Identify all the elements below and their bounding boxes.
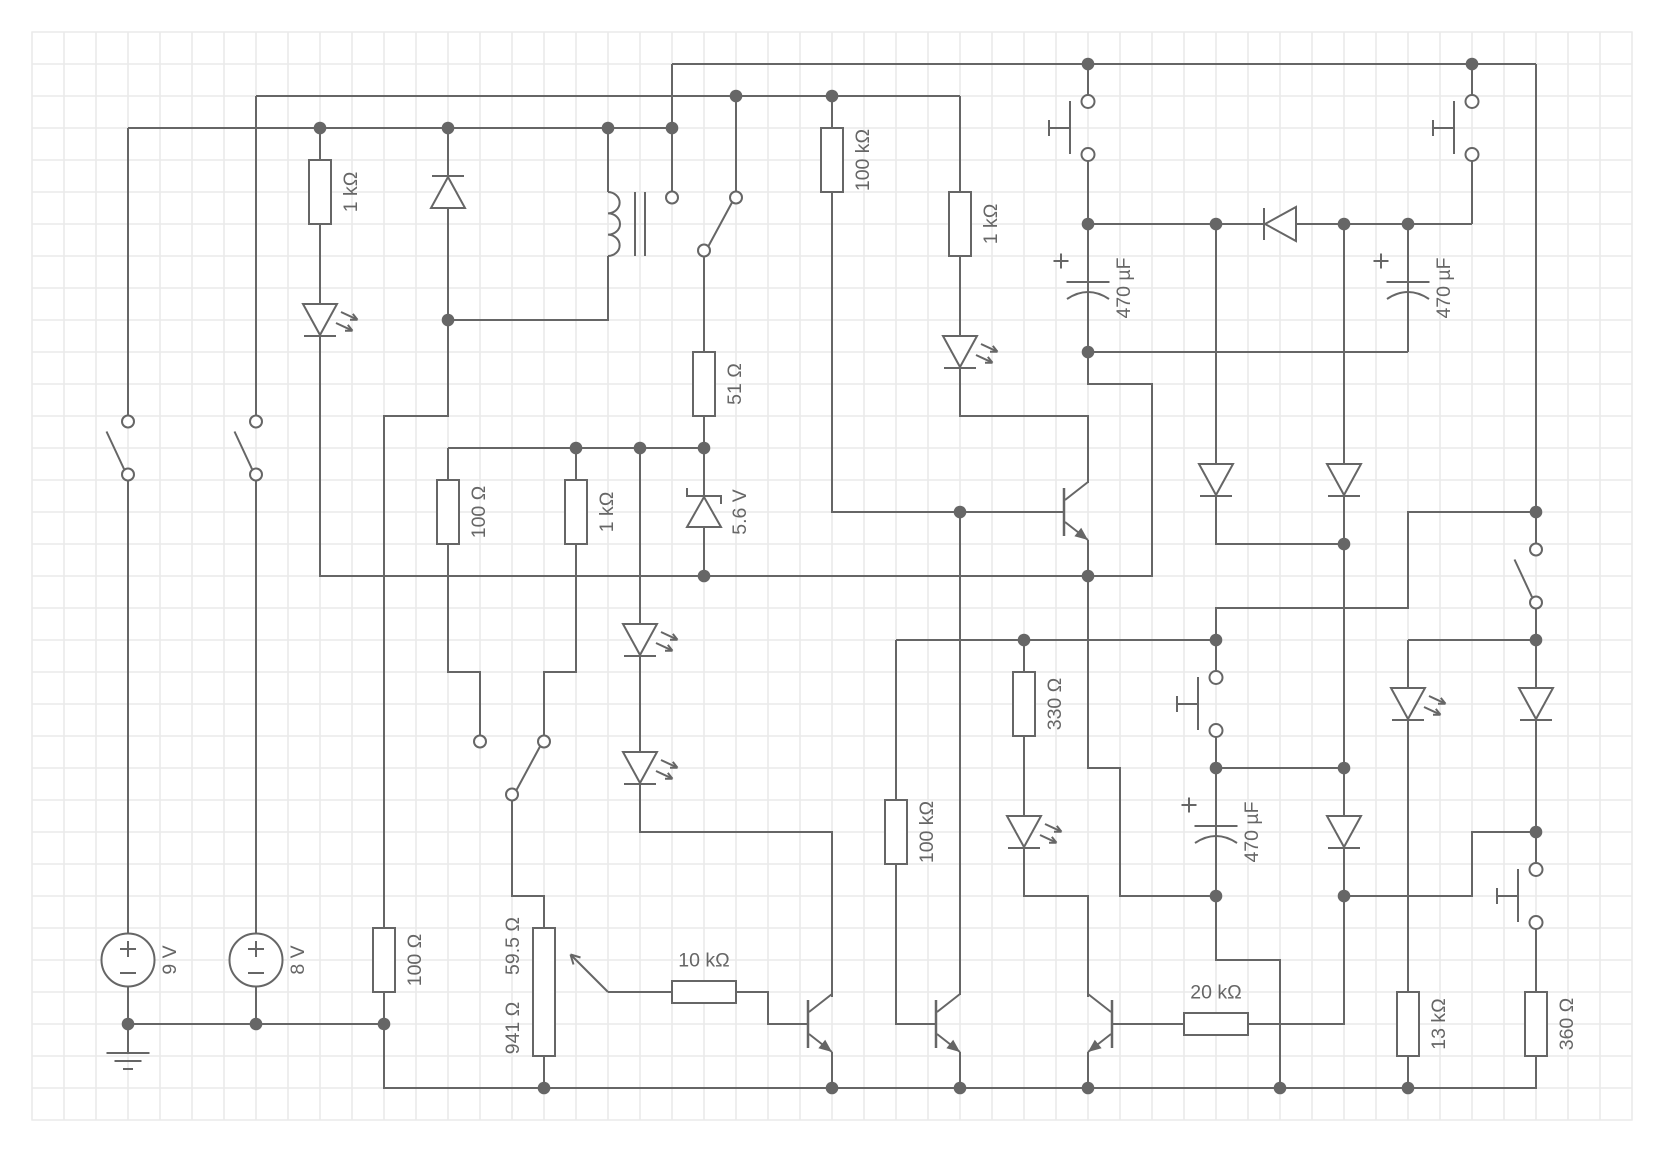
junction dots [314,122,327,135]
wire switch common to potentiometer [512,801,544,928]
wire 330/LED5 branch to Q3 collector [1024,640,1088,997]
wire rail y=96 from 256,96 to 960,96 [256,95,960,97]
wire LED6/13k branch x=1408 [1407,640,1409,1088]
wire x=128 switch to 9V source and ground rail [127,481,129,1024]
wire 1k/LED branch x=960 to Q4 collector [960,96,1088,483]
wire diode D2 branch x=1216 [1216,224,1344,544]
wire PB3 top lead [1215,640,1217,671]
wire Q3 base to 20k [1113,1023,1184,1025]
capacitor C3 470uF [1195,825,1238,827]
wire rail y=640 left segment [896,639,1216,641]
wire coil bottom to 448,320 [448,256,608,320]
svg-text:13 kΩ: 13 kΩ [1428,998,1450,1049]
wire x=256 switch to 8V source [255,481,257,1024]
LED LED5 [1007,816,1041,847]
LED LED6 [1391,688,1425,719]
wire 20k to node 1344,896 [1248,896,1344,1024]
wire loop 1088,352 to 1088,576 via 1152 [1088,352,1152,576]
wire node 1216,896 to bottom rail [1216,896,1280,1088]
resistor R12 [1397,992,1419,1056]
pushbutton PB3 [1210,671,1223,684]
wire 1k branch x=576 to switch right contact [544,448,576,735]
resistor R13 [1525,992,1547,1056]
LED LED2 [623,624,657,655]
svg-text:470 µF: 470 µF [1433,257,1455,318]
diode D5 [1519,688,1553,719]
wire x=256 down to switch [255,96,257,415]
wire relay left contact lead [671,128,673,191]
diode D4 [1327,816,1361,847]
svg-text:51 Ω: 51 Ω [724,363,746,405]
wire capacitor C3 through [1215,768,1217,896]
capacitor C1 470uF [1067,281,1110,283]
wire R1 branch x=320 with LED to rail y=576 [320,128,1088,576]
wire Q2 emitter [959,1052,961,1088]
svg-text:8 V: 8 V [287,945,309,974]
capacitor C2 470uF [1387,281,1430,283]
diode D6 [1265,207,1296,241]
svg-text:5.6 V: 5.6 V [729,489,751,535]
LED LED1 [303,304,337,335]
wire diode D3/D4 branch x=1344 [1343,224,1345,896]
wire SW4 bottom lead [1535,609,1537,641]
svg-text:1 kΩ: 1 kΩ [980,204,1002,245]
transistor Q4 [1063,488,1066,536]
wire coil top lead [607,128,609,192]
resistor R8 [672,981,736,1003]
resistor R2 [821,128,843,192]
zener diode Z1 5.6V [687,497,721,527]
wire Q4 emitter [1087,540,1089,576]
wire pushbutton PB2 top lead [1471,64,1473,95]
wire Q4 base [960,511,1063,513]
diode D2 [1199,464,1233,495]
wire rail y=128 from 128,128 to 672,128 [128,127,672,129]
wire zener branch 704,448 to 704,576 [703,448,705,576]
diode D3 [1327,464,1361,495]
wire rail y=352 [1088,351,1408,353]
wire left branch x=128 down to switch [127,128,129,415]
wire diode D5 branch x=1536 [1535,640,1537,832]
wire capacitor C2 through [1407,224,1409,352]
switch SW-relay [666,192,678,204]
wire 100ohm branch x=448 to switch left contact [448,448,480,735]
wire PB4 top lead [1535,832,1537,863]
wire PB4 bottom lead to 360ohm [1535,929,1537,992]
svg-text:100 Ω: 100 Ω [468,486,490,539]
wire rail y=896 to 1536,832 [1344,832,1536,896]
svg-text:20 kΩ: 20 kΩ [1190,982,1241,1004]
voltage source V1 9V [102,934,155,987]
wire x=672 from y=64 to y=128 [671,64,673,128]
resistor R3 [949,192,971,256]
wire LED chain x=640 to Q1 collector [640,448,832,997]
wire relay right contact lead [735,96,737,191]
wire switch SW4 top lead [1535,512,1537,544]
wire rail y=640 right segment [1408,639,1536,641]
wire node 1088,576 to node 1216,896 [1088,576,1216,896]
wire 100k branch x=896 to Q2 base [896,640,935,1024]
svg-text:1 kΩ: 1 kΩ [340,172,362,213]
inductor L1 with core (transformer) [608,192,620,256]
svg-text:100 kΩ: 100 kΩ [916,801,938,863]
wire rail y=224 [1088,223,1472,225]
svg-text:360 Ω: 360 Ω [1556,998,1578,1051]
switch SW2 [250,416,262,428]
wire 10k to Q1 base [736,992,807,1024]
svg-text:100 Ω: 100 Ω [404,934,426,987]
LED LED3 [623,752,657,783]
resistor R9 [885,800,907,864]
wire potentiometer bottom [543,1056,545,1088]
wire capacitor C1 through [1087,224,1089,352]
svg-text:1 kΩ: 1 kΩ [596,492,618,533]
diode D1 [431,177,465,208]
resistor R10 [1013,672,1035,736]
svg-text:59.5 Ω: 59.5 Ω [502,917,524,975]
switch SW3 [474,736,486,748]
wire ground rail y=1024 [128,1023,384,1025]
wire pushbutton PB1 bottom lead [1087,161,1089,224]
pushbutton PB1 [1082,95,1095,108]
wire rail y=448 [448,447,704,449]
resistor R11 [1184,1013,1248,1035]
LED LED4 [943,336,977,367]
svg-text:470 µF: 470 µF [1113,257,1135,318]
wire wiper to 10k resistor [608,991,672,993]
resistor R1 [309,160,331,224]
wire PB3 bottom lead [1215,737,1217,768]
wire Q1 emitter to rail [831,1052,833,1088]
svg-text:330 Ω: 330 Ω [1044,678,1066,731]
switch SW1 [122,416,134,428]
resistor R5 [437,480,459,544]
wire Q2 collector [959,512,961,995]
wire 100k branch x=832 to node 960,512 [832,96,960,512]
pushbutton PB4 [1530,863,1543,876]
pushbutton PB2 [1466,95,1479,108]
potentiometer RV1 [533,928,555,1056]
resistor R6 [565,480,587,544]
wire Q3 emitter [1087,1052,1089,1088]
svg-text:470 µF: 470 µF [1241,801,1263,862]
svg-text:10 kΩ: 10 kΩ [678,950,729,972]
transistor Q3 [1111,1000,1114,1048]
switch SW4 [1530,544,1542,556]
svg-text:100 kΩ: 100 kΩ [852,129,874,191]
wire relay common to 51ohm to node 704,448 [703,258,705,449]
svg-text:941 Ω: 941 Ω [502,1002,524,1055]
wire pushbutton PB1 top lead [1087,64,1089,95]
ground [107,1052,150,1054]
wire PB2 bottom lead to rail [1471,161,1473,224]
resistor R4 [693,352,715,416]
voltage source V2 8V [230,934,283,987]
wire node 1536,512 to 1216,640 [1216,512,1536,640]
wire top rail y=64 [672,63,1536,65]
wire D1 branch x=448 to 384 down to 100ohm [384,128,448,1024]
transistor Q2 [935,1000,938,1048]
svg-text:9 V: 9 V [159,945,181,974]
resistor R7 [373,928,395,992]
wire ground stub [127,1024,129,1053]
wire bottom rail y=1088 [384,1024,1536,1088]
transistor Q1 [807,1000,810,1048]
wire node 1216,768 to 1344,768 [1216,767,1344,769]
wire right rail x=1536 from 64 to 512 [1535,64,1537,512]
